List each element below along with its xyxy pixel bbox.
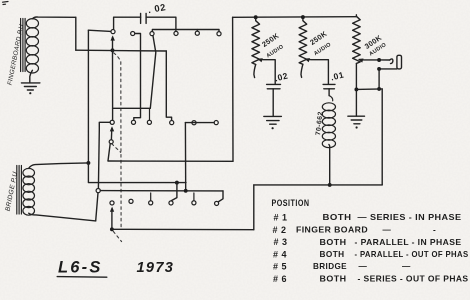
switch row3 wiper pivot node (110, 227, 114, 231)
switch row3 contact 5 (192, 201, 196, 205)
switch row3 contact 3 (149, 201, 153, 205)
inductor L3 bottom lead (328, 145, 331, 185)
ground cap C2 (264, 115, 282, 117)
switch row1 contact 5 (195, 31, 199, 35)
inductor L3 choke (329, 96, 333, 101)
ground fingerboard pickup (21, 82, 40, 84)
scan mark top-left corner (3, 2, 9, 5)
switch row2 wiper arrow (110, 126, 114, 131)
switch row1 contact 2 (131, 31, 135, 35)
capacitor C1 right wire (146, 17, 176, 30)
output jack J1 body (397, 55, 402, 69)
dashed spur row3 (113, 231, 121, 241)
svg-text:# 6: # 6 (273, 274, 287, 284)
wire row1 common horizontal (76, 49, 167, 52)
wire row3 contact3 stub (150, 193, 152, 201)
node jumper drop end (184, 189, 188, 193)
switch row2 contact 4 (170, 121, 174, 125)
node jack sleeve junction (377, 67, 381, 71)
potentiometer R2 wiper arrow (304, 58, 310, 62)
svg-text:# 2: # 2 (273, 225, 287, 235)
svg-text:BOTH: BOTH (320, 274, 347, 284)
bridge pickup core (16, 166, 18, 215)
switch row1 contact 1 (111, 30, 115, 34)
capacitor C2 lead (272, 89, 274, 116)
switch row2 contact 5 (192, 121, 196, 125)
capacitor C2 .02 plates (267, 83, 281, 85)
wire row2 common output horizontal (108, 160, 233, 162)
wire row1 contact1 to left vertical (88, 30, 111, 31)
fingerboard pickup bottom lead wire (30, 70, 33, 82)
wire row1 junction down to row2 (112, 50, 114, 108)
jack tip hook (390, 59, 393, 64)
ground pot R3 (348, 115, 365, 117)
capacitor C1 left wire (114, 17, 141, 29)
svg-text:POSITION: POSITION (272, 198, 310, 208)
svg-text:# 1: # 1 (274, 212, 288, 222)
wire row3 upper horizontal (100, 190, 223, 192)
svg-text:- PARALLEL - OUT OF PHAS: - PARALLEL - OUT OF PHAS (355, 249, 469, 259)
fingerboard pickup coil L1 (26, 19, 38, 28)
capacitor C3 .01 plates (323, 83, 335, 85)
bridge pickup top lead wire (29, 163, 89, 169)
node jack tip junction (377, 58, 381, 62)
svg-text:BOTH: BOTH (320, 237, 347, 247)
potentiometer R3 300K body (353, 15, 361, 64)
node pot3 lead junction (354, 87, 358, 91)
switch row3 contact 6 (215, 201, 219, 205)
title underline (57, 276, 107, 279)
fingerboard pickup core (20, 19, 22, 72)
node pot1 top (254, 15, 258, 19)
svg-text:- SERIES - OUT OF PHAS: - SERIES - OUT OF PHAS (358, 274, 469, 284)
switch row1 contact 3 (150, 32, 154, 36)
node tap on lower-left line (175, 181, 179, 185)
svg-text:# 3: # 3 (274, 237, 288, 247)
wire middle long vertical to top (232, 17, 234, 161)
wire row3 horizontal end down to contact6 (219, 191, 223, 202)
dashed spur row2 (112, 144, 121, 153)
wire row2 contact3 stub (149, 108, 151, 120)
switch row2 contact 3 (147, 120, 151, 124)
wire jack sleeve down (378, 69, 380, 89)
wire row2 jumper drop (184, 123, 186, 191)
fingerboard pickup top lead wire (32, 17, 75, 19)
node inductor to ground line (328, 183, 332, 187)
potentiometer R1 wiper arrow (257, 58, 263, 62)
wire pot3 to right vertical (356, 88, 382, 91)
switch row2 wiper pivot (109, 140, 113, 144)
svg-text:# 4: # 4 (273, 250, 287, 260)
node sleeve to ground line (377, 87, 381, 91)
switch row3 wiper arrow (110, 207, 114, 212)
switch row3 contact 4 (169, 201, 173, 205)
switch row2 contact 6 (214, 121, 218, 125)
node bridge junction (86, 161, 90, 165)
svg-text:# 5: # 5 (273, 262, 287, 272)
svg-text:BOTH: BOTH (320, 249, 345, 259)
switch row1 contact 6 (217, 32, 221, 36)
wire row3 contact5 stub (193, 193, 195, 201)
switch row1 contact 4 (174, 31, 178, 35)
svg-text:- PARALLEL - IN PHASE: - PARALLEL - IN PHASE (355, 237, 462, 247)
wire to row2 contact4 (166, 51, 171, 120)
wire row3 common to right (112, 228, 254, 230)
switch row3 contact 1 (110, 201, 114, 205)
potentiometer R3 wiper arrow (358, 59, 364, 63)
switch row1 wiper arrow (112, 37, 114, 50)
svg-text:BRIDGE: BRIDGE (313, 261, 347, 271)
switch row3 contact 2 (129, 199, 133, 203)
wire top bus to pots (233, 16, 356, 19)
svg-text:-: - (433, 224, 436, 234)
svg-text:—: — (359, 261, 368, 271)
capacitor C3 lead (328, 89, 330, 96)
wire left long vertical (87, 30, 89, 163)
wire tap down to row3 contact4 (171, 183, 177, 201)
svg-text:—: — (383, 224, 392, 234)
jack sleeve wire (379, 68, 397, 70)
wire row3 common up to ground line (253, 185, 255, 230)
wire terminal node down-left to bridge pickup (96, 193, 98, 221)
rotary switch mechanical dashed link (114, 53, 122, 229)
bridge pickup bottom lead wire (29, 213, 96, 221)
node row1 wiper junction (111, 48, 115, 52)
svg-text:FINGER BOARD: FINGER BOARD (296, 224, 368, 234)
node pot2 top (301, 15, 305, 19)
svg-text:L6-S: L6-S (58, 259, 103, 277)
potentiometer R1 250K body (252, 19, 260, 64)
wire left vertical lower (88, 163, 186, 183)
svg-text:— SERIES - IN PHASE: — SERIES - IN PHASE (358, 212, 462, 222)
wire bottom ground bus (254, 184, 382, 186)
terminal node bridge-row area (96, 189, 100, 193)
wire row2 contact1 left down (98, 122, 110, 188)
switch row2 contact 1 (110, 120, 114, 124)
wire fingerboard hot down (75, 17, 77, 50)
svg-text:BOTH: BOTH (323, 212, 352, 222)
svg-text:1973: 1973 (137, 260, 175, 276)
svg-text:—: — (402, 261, 411, 271)
wire row2 jumper 5-6 (185, 122, 214, 124)
wire row1 bus jumper (152, 30, 219, 32)
wire row2 horizontal link (113, 108, 151, 120)
capacitor C1 plates (140, 13, 142, 23)
potentiometer R2 250K body (299, 19, 307, 64)
wire row1 contact3 down slant (150, 36, 156, 108)
bridge pickup coil L2 (23, 168, 35, 177)
wire row1 bus stub contact5 (196, 30, 198, 32)
wire right vertical ground run (381, 89, 383, 185)
wire row2 pivot to output line (108, 144, 110, 161)
switch row2 contact 2 (131, 120, 135, 124)
wire row1 contact2 down (134, 34, 141, 121)
